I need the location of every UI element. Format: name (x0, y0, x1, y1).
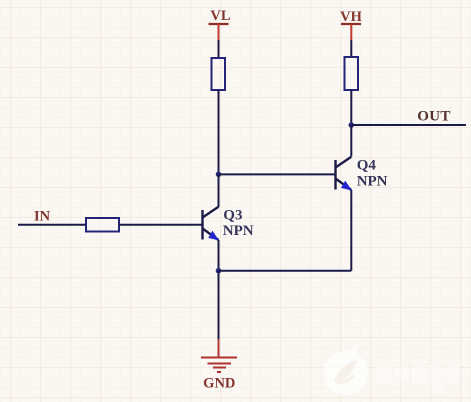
resistor R3 (horizontal) (86, 218, 119, 232)
wire node B to Q4 collector (350, 125, 352, 157)
node B junction dot (349, 122, 355, 128)
resistor R1 (left, vertical) (212, 58, 226, 90)
wire up to Q4 emitter (350, 190, 352, 271)
watermark text blobs (377, 366, 460, 393)
wire R1 to node A (218, 90, 220, 174)
svg-text:Q3: Q3 (223, 207, 242, 223)
wire VL to R1 (218, 40, 220, 58)
wire Q3 emitter to node C (218, 240, 220, 271)
svg-text:GND: GND (203, 376, 235, 392)
svg-text:VL: VL (210, 8, 230, 24)
ground symbol (201, 358, 237, 373)
wire VH to R2 (350, 40, 352, 57)
ground red lead (218, 339, 220, 357)
wire node C to Q4 emitter (horizontal) (219, 270, 352, 272)
svg-text:NPN: NPN (223, 223, 254, 239)
Q4 emitter arrow (341, 181, 352, 191)
power VH bar symbol (341, 24, 361, 40)
wire OUT (351, 124, 466, 126)
transistor Q3 (203, 207, 219, 240)
wire node C to ground (218, 271, 220, 339)
wire R2 to node B (350, 90, 352, 125)
svg-text:NPN: NPN (357, 173, 388, 189)
wire IN to R3 (18, 224, 86, 226)
svg-text:Q4: Q4 (357, 157, 377, 173)
node C junction dot (216, 268, 222, 274)
svg-text:VH: VH (340, 9, 362, 25)
transistor Q4 (336, 157, 352, 190)
Q3 emitter arrow (208, 231, 219, 241)
watermark logo circle (324, 345, 368, 395)
wire R3 to Q3 base (119, 224, 203, 226)
wire node A to Q4 base (219, 173, 336, 175)
power VL bar symbol (209, 24, 229, 40)
node A junction dot (216, 172, 222, 178)
svg-text:IN: IN (34, 208, 51, 224)
wire node A to Q3 collector (218, 174, 220, 208)
svg-text:OUT: OUT (417, 109, 450, 125)
resistor R2 (right, vertical) (345, 57, 359, 90)
